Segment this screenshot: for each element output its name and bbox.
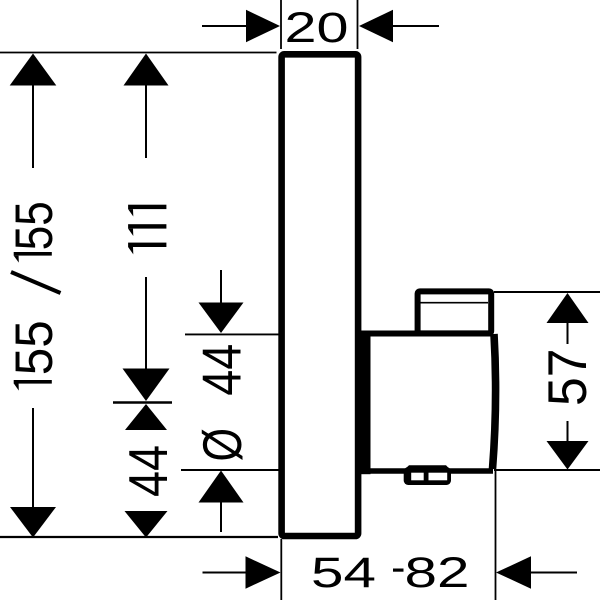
svg-text:Ø: Ø bbox=[191, 428, 253, 462]
svg-text:44: 44 bbox=[117, 445, 179, 497]
dim diameter 44: top arrow bbox=[199, 303, 244, 334]
dim 155/155: upper line segment bbox=[32, 85, 34, 168]
button under handle: body bbox=[404, 467, 451, 485]
dim 155/155: label digit 1 (upper) bbox=[14, 252, 52, 256]
dim 20: left arrow bbox=[246, 10, 280, 42]
extension line top (level with plate top) bbox=[0, 52, 277, 54]
handle body bottom edge bbox=[356, 468, 493, 474]
shared tick between dim 111 and dim 44 bbox=[113, 401, 172, 403]
dim 57: bottom extension line bbox=[494, 469, 600, 471]
dim 54-82: left leader bbox=[203, 572, 247, 574]
dim 111: label digit 1 bbox=[128, 224, 166, 228]
dim 155/155: label slash bbox=[11, 272, 61, 293]
dim 20: right extension line bbox=[357, 0, 359, 49]
handle grip inner line bbox=[421, 302, 489, 304]
dim diameter 44: top extension line bbox=[185, 333, 281, 335]
handle body right edge bbox=[493, 334, 496, 469]
dim 44 left: top arrow bbox=[125, 404, 167, 430]
handle grip bbox=[418, 291, 492, 333]
dim 57: top extension line bbox=[494, 291, 600, 293]
dim 155/155: bottom arrow bbox=[10, 507, 56, 538]
dim 57: lower line segment bbox=[567, 421, 569, 442]
dim 111: upper line segment bbox=[145, 85, 147, 158]
extension line bottom (level with plate bottom) bbox=[0, 536, 278, 538]
dim diameter 44: bottom extension line bbox=[181, 469, 281, 471]
svg-text:82: 82 bbox=[405, 549, 470, 597]
dim 54-82: left arrow bbox=[246, 556, 281, 588]
button under handle: bump bbox=[404, 465, 451, 470]
dim 155/155: label digit 1 (lower) bbox=[14, 380, 52, 384]
button under handle: left cell bbox=[411, 473, 424, 481]
dim 57: upper line segment bbox=[567, 322, 569, 344]
dim 54-82: right arrow bbox=[496, 556, 531, 588]
dim 54-82: label -82 bbox=[393, 569, 404, 572]
svg-text:55: 55 bbox=[5, 320, 64, 375]
dim diameter 44: bottom arrow bbox=[199, 471, 244, 503]
svg-text:44: 44 bbox=[191, 344, 253, 396]
dim diameter 44: lower leader bbox=[220, 502, 222, 532]
dim 111: bottom arrow bbox=[123, 369, 170, 402]
dim 54-82: right leader bbox=[530, 572, 577, 574]
svg-text:55: 55 bbox=[5, 201, 64, 250]
dim 44 left: bottom arrow bbox=[125, 511, 168, 538]
handle body left flange bbox=[361, 331, 371, 474]
dim 155/155: top arrow bbox=[10, 54, 57, 86]
dim diameter 44: upper leader bbox=[220, 270, 222, 303]
dim 155/155: lower line segment bbox=[32, 408, 34, 508]
handle body interior bbox=[362, 334, 493, 468]
dim 57: top arrow bbox=[547, 293, 589, 323]
svg-text:57: 57 bbox=[536, 349, 598, 407]
dim 57: bottom arrow bbox=[547, 441, 589, 470]
handle body top edge bbox=[356, 331, 491, 337]
dim 111: label digit 1 bbox=[128, 205, 166, 209]
svg-text:20: 20 bbox=[285, 4, 349, 52]
button under handle: right cell bbox=[429, 473, 448, 481]
dim 20: right leader bbox=[392, 25, 439, 27]
dim 54-82: left extension line bbox=[280, 539, 282, 600]
dim 20: left extension line bbox=[280, 0, 282, 49]
dim 20: right arrow bbox=[359, 10, 393, 42]
dim 54-82: right extension line bbox=[495, 471, 497, 600]
dim 111: lower line segment bbox=[145, 277, 147, 369]
dim 111: label digit 1 bbox=[128, 243, 166, 247]
escutcheon plate (side view) bbox=[282, 54, 359, 536]
dim 111: top arrow bbox=[124, 54, 169, 86]
svg-text:54: 54 bbox=[311, 549, 376, 597]
dim 20: left leader bbox=[202, 25, 247, 27]
